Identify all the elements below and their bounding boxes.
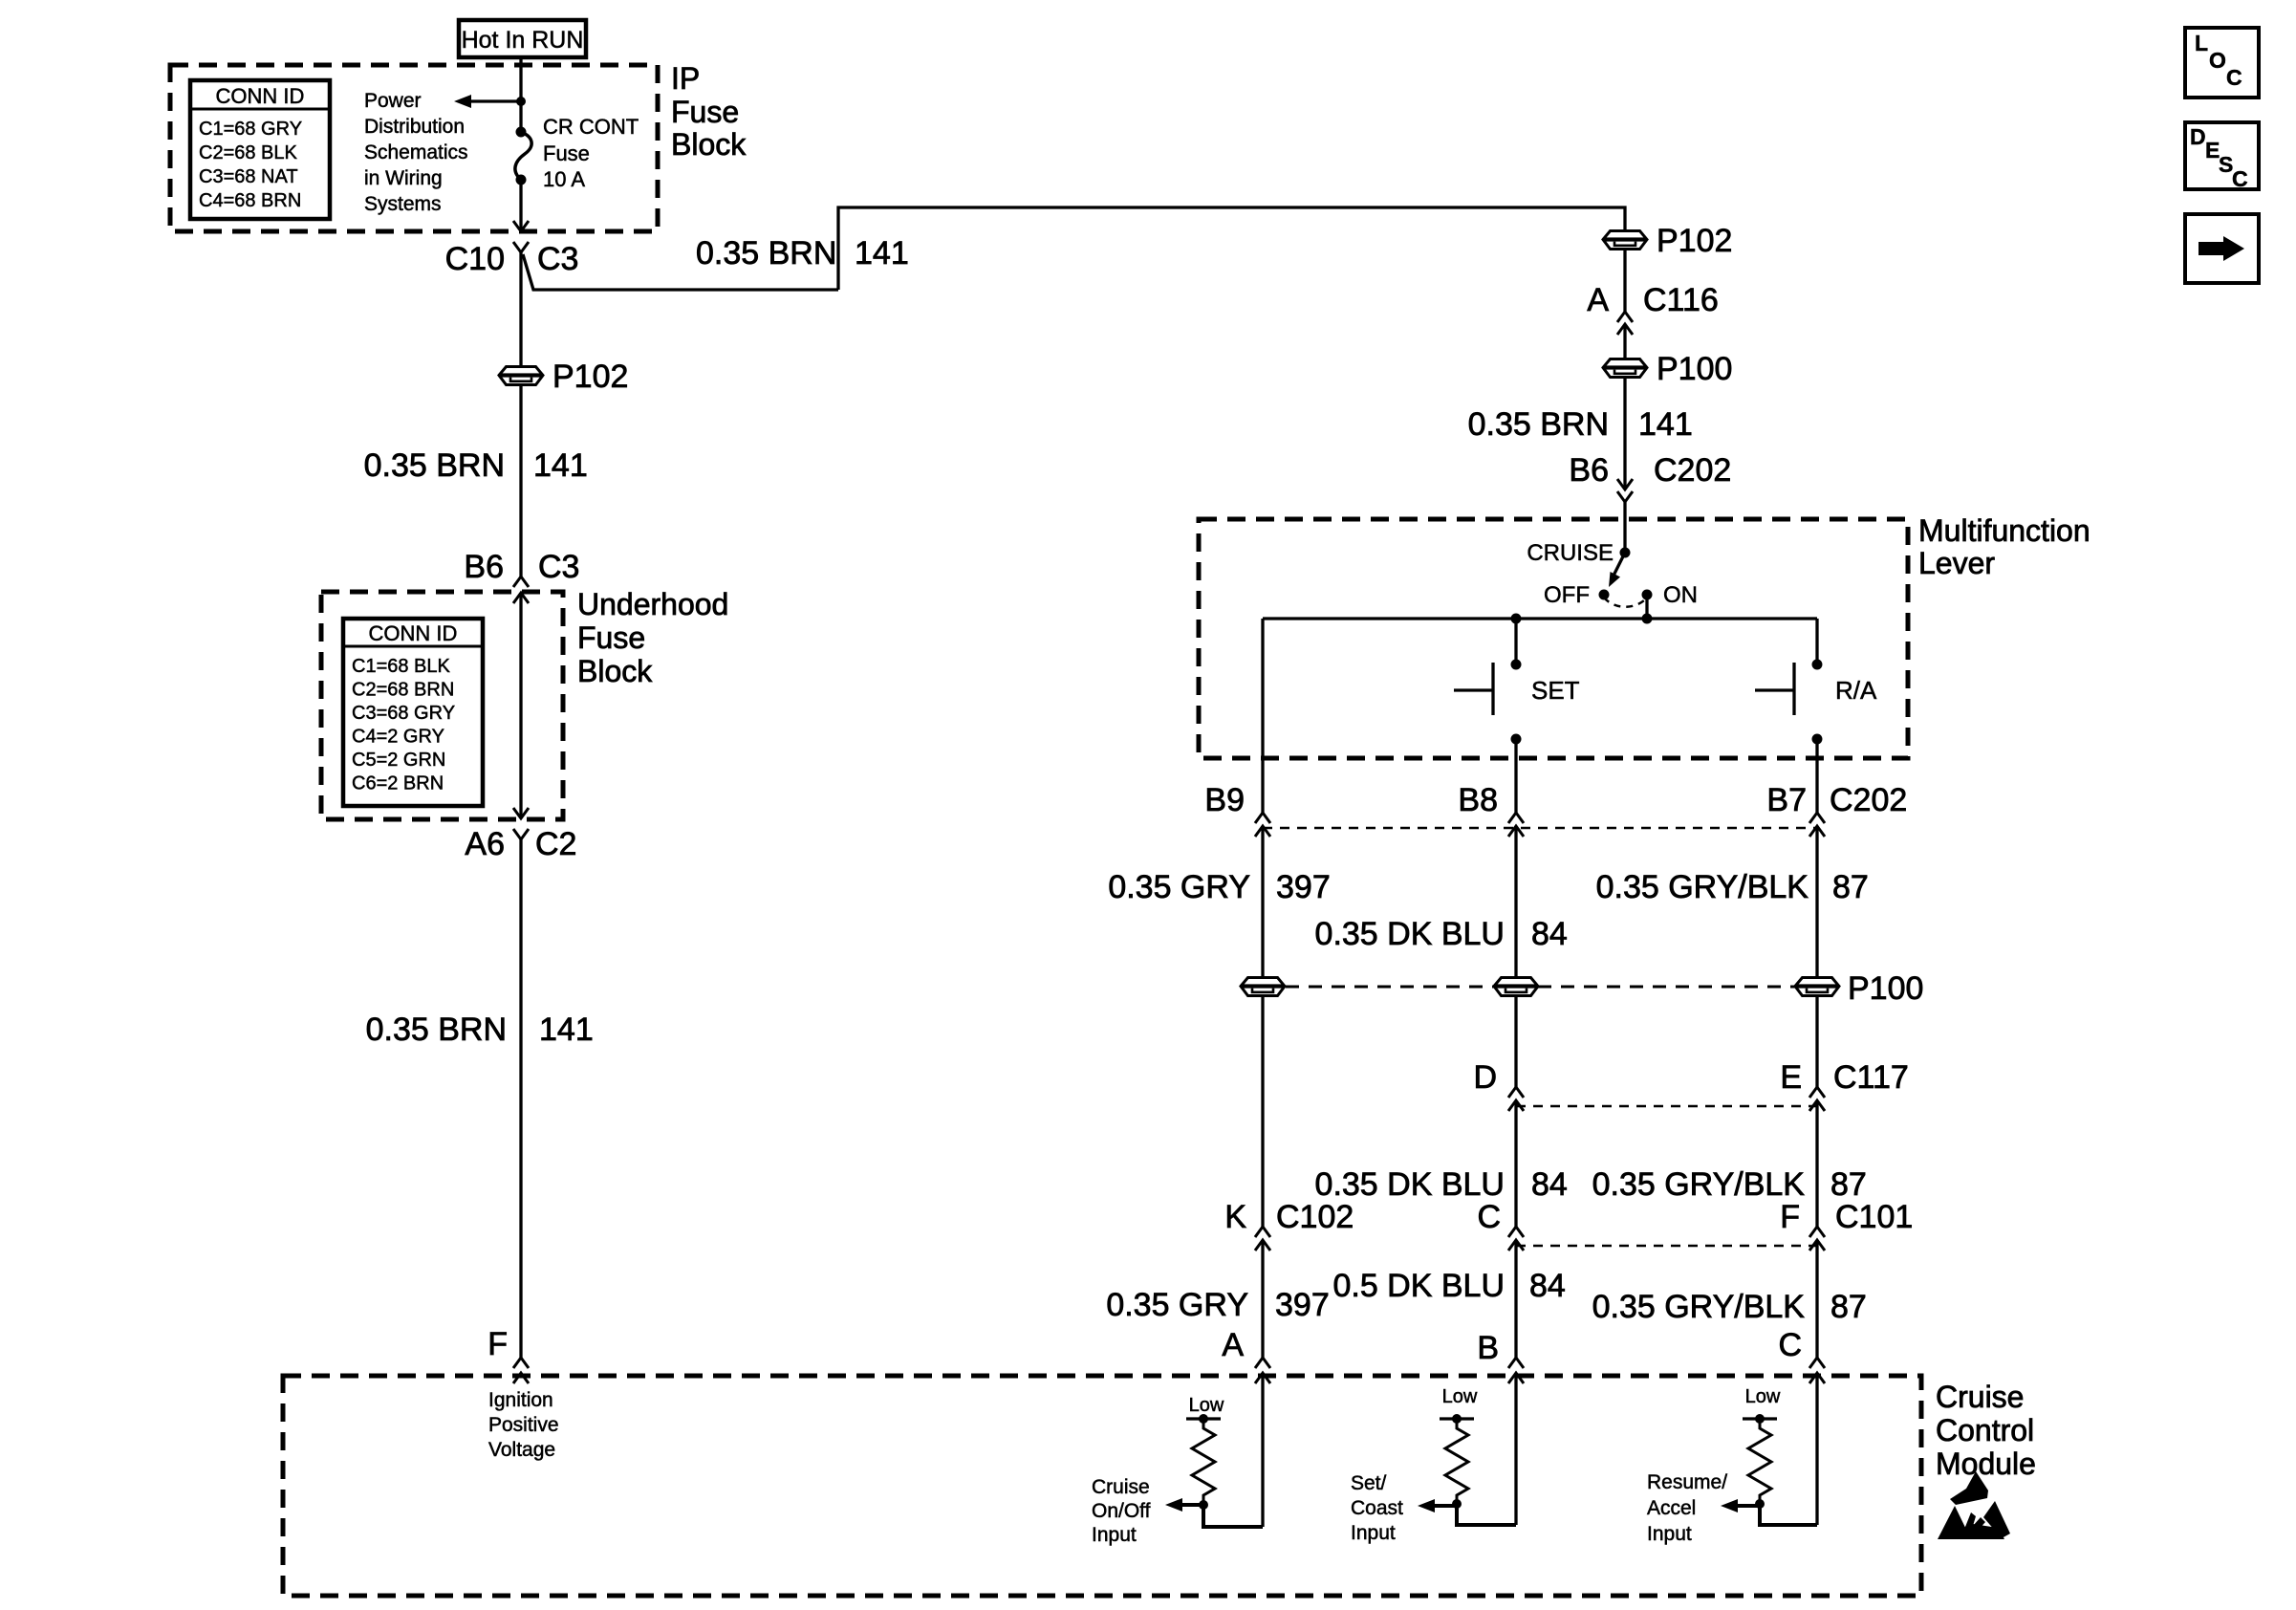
label: Resume/Accel Input <box>1647 1471 1727 1545</box>
svg-text:C5=2 GRN: C5=2 GRN <box>352 750 445 771</box>
connector pin F | C101 <box>1780 1199 1913 1251</box>
node OFF <box>1599 590 1610 600</box>
connector B6 | C3 <box>464 549 579 603</box>
svg-text:A: A <box>1222 1327 1244 1363</box>
svg-text:P100: P100 <box>1657 351 1732 387</box>
connector C117: thin dashed link <box>1516 1105 1817 1108</box>
connector pin B8 | C202 <box>1458 782 1524 837</box>
label: Set/Coast Input <box>1351 1472 1403 1544</box>
module pin B <box>1477 1330 1524 1383</box>
svg-text:Cruise: Cruise <box>1092 1476 1150 1498</box>
svg-text:C3: C3 <box>538 549 579 585</box>
svg-text:IP: IP <box>671 61 700 96</box>
label: 0.35 GRY | 397 (lower) <box>1106 1287 1329 1323</box>
splice P100 on wire 87 + label <box>1795 970 1923 1007</box>
svg-text:CRUISE: CRUISE <box>1527 540 1614 566</box>
wire: P102 to B6/C3 <box>519 385 522 577</box>
wire: bus to SET switch <box>1514 619 1517 664</box>
svg-text:B9: B9 <box>1204 782 1245 818</box>
label: 0.35 GRY/BLK | 87 (middle) <box>1592 1166 1867 1203</box>
svg-text:Input: Input <box>1647 1523 1692 1545</box>
wire: module jog to resistor R1 <box>1203 1505 1263 1527</box>
fuse CR CONT 10 A <box>515 127 531 185</box>
wire: K to pin A <box>1261 1240 1264 1358</box>
svg-text:Lever: Lever <box>1918 546 1995 580</box>
wire: through underhood fuse block <box>519 593 522 818</box>
svg-text:Distribution: Distribution <box>364 116 465 138</box>
svg-text:0.35 GRY: 0.35 GRY <box>1106 1287 1248 1323</box>
label: 0.35 GRY/BLK | 87 (lower) <box>1592 1289 1867 1325</box>
wire: pin A into module <box>1261 1373 1264 1527</box>
label: 0.35 GRY | 397 (upper) <box>1108 869 1330 905</box>
wire: R/A to B7 <box>1815 739 1818 813</box>
wire: ON to bus <box>1645 595 1648 619</box>
arrow: set/coast input <box>1418 1499 1457 1512</box>
label: Ignition Positive Voltage <box>488 1389 559 1461</box>
svg-text:0.35 DK BLU: 0.35 DK BLU <box>1315 1166 1505 1203</box>
svg-text:B6: B6 <box>464 549 504 585</box>
svg-text:K: K <box>1224 1199 1246 1235</box>
svg-text:B6: B6 <box>1569 452 1609 489</box>
Underhood Fuse Block title <box>577 587 728 688</box>
wire: D to C <box>1514 1100 1517 1227</box>
svg-text:Positive: Positive <box>488 1414 559 1436</box>
svg-text:C4=2 GRY: C4=2 GRY <box>352 727 444 748</box>
switch: CRUISE blade <box>1527 540 1630 587</box>
svg-text:C117: C117 <box>1833 1059 1909 1096</box>
connector C202: thin dashed link <box>1263 827 1817 830</box>
svg-text:OFF: OFF <box>1544 582 1590 608</box>
power source tag "Hot In RUN" <box>459 20 586 57</box>
connector pin E | C117 <box>1780 1059 1908 1111</box>
svg-text:Fuse: Fuse <box>543 141 590 165</box>
wire: bus to R/A switch <box>1815 619 1818 664</box>
wire: branch from C10/C3 to right riser <box>523 254 838 290</box>
svg-text:0.35 BRN: 0.35 BRN <box>364 447 505 484</box>
svg-text:Schematics: Schematics <box>364 141 468 163</box>
connector A | C116 <box>1587 282 1718 335</box>
svg-text:On/Off: On/Off <box>1092 1500 1151 1522</box>
svg-text:Underhood: Underhood <box>577 587 728 621</box>
CONN ID table (IP fuse block) <box>190 80 330 219</box>
svg-text:C1=68 BLK: C1=68 BLK <box>352 656 451 677</box>
node: bus/ON junction <box>1642 614 1653 624</box>
connector B6 | C202 <box>1569 452 1731 502</box>
svg-text:C101: C101 <box>1835 1199 1913 1235</box>
label: 0.35 BRN | 141 (left lower) <box>366 1012 594 1048</box>
wire: module jog to resistor R2 <box>1457 1504 1516 1525</box>
svg-text:0.35 GRY/BLK: 0.35 GRY/BLK <box>1592 1289 1806 1325</box>
wire: fuse to connector C10 <box>519 180 522 231</box>
svg-text:CR CONT: CR CONT <box>543 115 639 139</box>
svg-text:D: D <box>1473 1059 1497 1096</box>
svg-text:Hot In RUN: Hot In RUN <box>462 27 584 54</box>
wire: into cruise switch <box>1623 502 1626 553</box>
svg-text:Block: Block <box>577 654 653 688</box>
svg-text:Multifunction: Multifunction <box>1918 513 2090 548</box>
wire: P100 to D (wire 84) <box>1514 996 1517 1087</box>
node ON <box>1642 590 1653 600</box>
svg-text:0.35 DK BLU: 0.35 DK BLU <box>1315 916 1505 952</box>
svg-text:C202: C202 <box>1830 782 1907 818</box>
svg-text:E: E <box>1780 1059 1802 1096</box>
svg-text:ON: ON <box>1663 582 1698 608</box>
connector pin C | C101 <box>1477 1199 1524 1251</box>
Cruise Control Module title <box>1936 1380 2036 1481</box>
svg-text:84: 84 <box>1531 1166 1568 1203</box>
svg-text:A6: A6 <box>465 826 505 862</box>
svg-text:0.35 BRN: 0.35 BRN <box>1468 406 1609 443</box>
label: 0.5 DK BLU | 84 (lower) <box>1332 1268 1565 1304</box>
wire: A6/C2 down to pin F <box>519 839 522 1358</box>
svg-text:Set/: Set/ <box>1351 1472 1387 1494</box>
svg-text:141: 141 <box>855 235 909 272</box>
module pin C <box>1778 1327 1825 1383</box>
arrow: to power distribution schematics <box>454 95 521 108</box>
wire: pin B into module <box>1514 1373 1517 1525</box>
svg-text:Fuse: Fuse <box>671 95 739 129</box>
splice P100 (right top) <box>1603 351 1732 387</box>
wire: pin C into module <box>1815 1373 1818 1525</box>
svg-text:C6=2 BRN: C6=2 BRN <box>352 773 444 794</box>
dashed throw arc between OFF and ON <box>1604 598 1647 607</box>
wire: B7 to P100 <box>1815 826 1818 977</box>
wire: C10/C3 down to P102 splice <box>519 252 522 366</box>
svg-text:87: 87 <box>1832 869 1869 905</box>
arrow: cruise on/off input <box>1165 1498 1203 1512</box>
svg-text:A: A <box>1587 282 1609 318</box>
wire: P102 to A/C116 <box>1623 250 1626 312</box>
svg-text:C2=68 BRN: C2=68 BRN <box>352 680 454 701</box>
IP Fuse Block title <box>671 61 747 162</box>
svg-text:P100: P100 <box>1848 970 1923 1007</box>
label: 0.35 BRN | 141 (left upper) <box>364 447 588 484</box>
node: bus/SET junction <box>1511 614 1522 624</box>
svg-text:Module: Module <box>1936 1447 2036 1481</box>
connector A6 | C2 <box>465 808 576 862</box>
svg-text:O: O <box>2209 48 2226 73</box>
connector C101: thin dashed link <box>1516 1245 1817 1248</box>
switch SET (pushbutton) <box>1454 660 1580 745</box>
svg-text:Input: Input <box>1092 1524 1137 1546</box>
wire: B8 to P100 <box>1514 826 1517 977</box>
wire: module jog to resistor R3 <box>1760 1504 1817 1525</box>
svg-text:Block: Block <box>671 127 747 162</box>
svg-text:CONN ID: CONN ID <box>216 84 305 108</box>
svg-text:C3=68 GRY: C3=68 GRY <box>352 703 455 724</box>
svg-text:87: 87 <box>1830 1166 1867 1203</box>
wire: C to pin B <box>1514 1240 1517 1358</box>
splice row P100: dashed link <box>1263 986 1817 989</box>
svg-text:C3: C3 <box>537 241 578 277</box>
svg-text:C116: C116 <box>1643 282 1719 318</box>
Multifunction Lever title <box>1918 513 2090 580</box>
svg-text:Resume/: Resume/ <box>1647 1471 1727 1493</box>
svg-text:0.35 BRN: 0.35 BRN <box>366 1012 507 1048</box>
svg-text:L: L <box>2195 31 2208 55</box>
svg-text:C10: C10 <box>445 241 505 277</box>
svg-text:Systems: Systems <box>364 193 442 215</box>
CONN ID table (Underhood fuse block) <box>343 619 483 806</box>
svg-text:C1=68 GRY: C1=68 GRY <box>199 119 302 140</box>
wire: lever bus <box>1263 617 1817 620</box>
label: 0.35 GRY/BLK | 87 (upper) <box>1596 869 1869 905</box>
connector C10 | C3 <box>445 221 579 277</box>
svg-text:C2: C2 <box>535 826 576 862</box>
svg-text:Coast: Coast <box>1351 1497 1403 1519</box>
svg-text:Ignition: Ignition <box>488 1389 553 1411</box>
connector pin B9 | C202 <box>1204 782 1270 837</box>
svg-text:C3=68 NAT: C3=68 NAT <box>199 166 298 187</box>
svg-text:397: 397 <box>1276 869 1331 905</box>
wire: B9 to P100 <box>1261 826 1264 977</box>
arrow: resume/accel input <box>1721 1499 1760 1512</box>
svg-text:Cruise: Cruise <box>1936 1380 2024 1414</box>
svg-text:C202: C202 <box>1654 452 1731 489</box>
splice P100 on wire 84 <box>1494 978 1538 996</box>
svg-text:Low: Low <box>1189 1395 1224 1416</box>
svg-text:B: B <box>1477 1330 1499 1366</box>
svg-text:C: C <box>1778 1327 1802 1363</box>
splice P102 (left) <box>499 359 628 395</box>
svg-text:Power: Power <box>364 90 422 112</box>
wire: riser and long top run to P102 <box>838 207 1625 290</box>
Multifunction Lever dashed box <box>1199 519 1908 758</box>
fuse label: CR CONT Fuse 10 A <box>543 115 639 191</box>
connector pin K | C102 <box>1224 1199 1354 1251</box>
svg-text:Voltage: Voltage <box>488 1439 555 1461</box>
wire: F to pin C <box>1815 1240 1818 1358</box>
svg-text:141: 141 <box>1638 406 1693 443</box>
svg-text:C102: C102 <box>1276 1199 1354 1235</box>
svg-text:D: D <box>2190 124 2206 149</box>
svg-text:C: C <box>1477 1199 1501 1235</box>
splice P100 on wire 397 <box>1241 978 1285 996</box>
wire: Hot In RUN down to fuse <box>519 57 522 132</box>
wire: bus left end down to B9 <box>1261 619 1264 813</box>
icon box DESC <box>2185 122 2259 191</box>
label: 0.35 BRN | 141 (branch) <box>696 235 909 272</box>
svg-text:B7: B7 <box>1766 782 1807 818</box>
svg-text:Low: Low <box>1745 1386 1781 1407</box>
resistor R1 (cruise on/off input) <box>1186 1395 1224 1510</box>
svg-text:Fuse: Fuse <box>577 620 645 655</box>
splice P102 (right) <box>1603 223 1732 259</box>
svg-text:84: 84 <box>1529 1268 1566 1304</box>
wire: P100 to E (wire 87) <box>1815 996 1818 1087</box>
node: junction dot to power distribution <box>516 97 526 106</box>
svg-text:in Wiring: in Wiring <box>364 167 443 189</box>
note: Power Distribution Schematics in Wiring Systems <box>364 90 468 215</box>
wire: E to F <box>1815 1100 1818 1227</box>
svg-text:10 A: 10 A <box>543 167 585 191</box>
svg-text:Accel: Accel <box>1647 1497 1696 1519</box>
label: Cruise On/Off Input <box>1092 1476 1151 1546</box>
module pin A <box>1222 1327 1270 1383</box>
connector pin D | C117 <box>1473 1059 1524 1111</box>
resistor R3 (resume/accel input) <box>1743 1386 1781 1509</box>
svg-text:Input: Input <box>1351 1522 1396 1544</box>
svg-text:0.35 GRY/BLK: 0.35 GRY/BLK <box>1592 1166 1806 1203</box>
svg-text:SET: SET <box>1531 676 1580 705</box>
svg-text:0.35 BRN: 0.35 BRN <box>696 235 836 272</box>
label: 0.35 DK BLU | 84 (middle) <box>1315 1166 1568 1203</box>
svg-text:C: C <box>2226 65 2242 90</box>
Underhood Fuse Block dashed box <box>321 592 563 819</box>
icon box forward arrow <box>2185 214 2259 283</box>
resistor R2 (set/coast input) <box>1440 1386 1478 1509</box>
svg-text:141: 141 <box>539 1012 594 1048</box>
svg-text:397: 397 <box>1275 1287 1330 1323</box>
IP Fuse Block dashed box <box>170 65 658 231</box>
label: 0.35 DK BLU | 84 (upper) <box>1315 916 1568 952</box>
label: 0.35 BRN | 141 (right) <box>1468 406 1693 443</box>
svg-text:0.35 GRY: 0.35 GRY <box>1108 869 1250 905</box>
svg-text:87: 87 <box>1830 1289 1867 1325</box>
svg-text:P102: P102 <box>1657 223 1732 259</box>
icon box LOC <box>2185 28 2259 98</box>
Cruise Control Module dashed box <box>283 1376 1921 1596</box>
wire: P100 to K (wire 397) <box>1261 996 1264 1227</box>
wire: SET to B8 <box>1514 739 1517 813</box>
svg-text:B8: B8 <box>1458 782 1498 818</box>
switch R/A (pushbutton) <box>1755 660 1877 745</box>
svg-text:C: C <box>2232 166 2248 191</box>
svg-text:84: 84 <box>1531 916 1568 952</box>
svg-text:Control: Control <box>1936 1413 2034 1447</box>
svg-text:R/A: R/A <box>1835 676 1877 705</box>
pin F of cruise control module <box>487 1326 529 1383</box>
wire: A/C116 to P100 <box>1623 324 1626 359</box>
svg-text:P102: P102 <box>552 359 628 395</box>
svg-text:F: F <box>487 1326 508 1362</box>
svg-text:141: 141 <box>533 447 588 484</box>
svg-text:Low: Low <box>1442 1386 1478 1407</box>
svg-text:0.35 GRY/BLK: 0.35 GRY/BLK <box>1596 869 1809 905</box>
svg-text:C4=68 BRN: C4=68 BRN <box>199 190 301 211</box>
connector pin B7 | C202 <box>1766 782 1907 837</box>
svg-text:0.5 DK BLU: 0.5 DK BLU <box>1332 1268 1505 1304</box>
svg-text:CONN ID: CONN ID <box>369 621 458 645</box>
wire: P100 to B6/C202 <box>1623 378 1626 490</box>
ESD sensitive device symbol <box>1938 1471 2010 1539</box>
svg-text:C2=68 BLK: C2=68 BLK <box>199 142 298 163</box>
svg-text:F: F <box>1780 1199 1800 1235</box>
